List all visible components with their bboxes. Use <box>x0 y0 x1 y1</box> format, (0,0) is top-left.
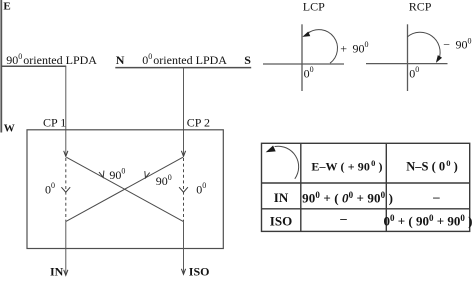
90deg oriented LPDA label <box>6 52 97 67</box>
wire feed from 0deg LPDA to CP2 <box>181 68 185 157</box>
svg-text:900 oriented LPDA: 900 oriented LPDA <box>6 52 97 67</box>
90deg label right <box>156 173 172 188</box>
LCP rotation arc +90 <box>301 30 337 64</box>
table column separator 2 <box>385 143 387 231</box>
svg-text:ISO: ISO <box>189 264 210 278</box>
table row separator 1 <box>262 182 470 184</box>
svg-text:00: 00 <box>304 65 314 80</box>
table cell IN / N-S dash <box>432 189 440 204</box>
RCP vertical axis <box>407 24 409 91</box>
table cell ISO / E-W dash <box>339 210 347 225</box>
table row label IN <box>274 190 289 205</box>
0deg label left <box>45 181 55 196</box>
RCP 0deg label <box>409 65 419 80</box>
node E label <box>3 0 10 12</box>
svg-text:E: E <box>3 0 10 12</box>
svg-text:00: 00 <box>45 181 55 196</box>
svg-text:− 900: − 900 <box>443 36 471 51</box>
svg-text:–: – <box>339 210 347 225</box>
0deg LPDA antenna line (N-S) <box>115 67 251 69</box>
90deg LPDA antenna line <box>1 65 66 67</box>
dashed through path CP2 (0deg) <box>183 158 185 221</box>
svg-text:IN: IN <box>274 190 289 205</box>
svg-text:E–W ( + 90 0 ): E–W ( + 90 0 ) <box>311 158 382 173</box>
node S label <box>244 53 251 67</box>
svg-text:900: 900 <box>156 173 172 188</box>
svg-text:00: 00 <box>196 181 206 196</box>
CP 1 label <box>43 116 66 130</box>
ISO label <box>189 264 210 278</box>
0deg oriented LPDA label <box>142 52 227 67</box>
RCP label <box>409 0 432 13</box>
svg-text:900: 900 <box>109 166 125 181</box>
svg-text:LCP: LCP <box>303 0 325 13</box>
node W label <box>4 123 15 135</box>
LCP horizontal axis <box>263 63 344 65</box>
circular polarization symbol in table header <box>264 146 298 179</box>
hybrid network box <box>27 130 223 249</box>
LCP label <box>303 0 325 13</box>
E-W axis line <box>0 0 2 133</box>
svg-text:CP 2: CP 2 <box>187 116 210 130</box>
table outer border <box>262 143 470 231</box>
table cell IN / E-W value <box>302 190 393 206</box>
svg-text:IN: IN <box>50 264 64 278</box>
svg-text:00 + ( 900 + 900 ): 00 + ( 900 + 900 ) <box>383 213 472 229</box>
RCP rotation arc -90 <box>407 32 442 64</box>
chevron arrow on CP1 dashed path <box>61 187 70 192</box>
IN label <box>50 264 64 278</box>
svg-text:N–S ( 0 0 ): N–S ( 0 0 ) <box>406 158 457 174</box>
wire feed from 90deg LPDA to CP1 <box>64 66 68 156</box>
svg-text:N: N <box>116 53 125 67</box>
svg-text:RCP: RCP <box>409 0 432 13</box>
output wire IN <box>64 221 68 275</box>
svg-text:ISO: ISO <box>270 214 292 229</box>
-90deg label <box>443 36 471 51</box>
node N label <box>116 53 125 67</box>
+90deg label <box>340 40 368 55</box>
cross coupling wire CP2 to IN (90deg) <box>66 157 183 221</box>
svg-text:00 oriented LPDA: 00 oriented LPDA <box>142 52 227 67</box>
output wire ISO <box>181 221 185 274</box>
90deg label left <box>109 166 125 181</box>
cross coupling wire CP1 to ISO (90deg) <box>66 157 183 221</box>
svg-text:900 + ( 00 + 900 ): 900 + ( 00 + 900 ) <box>302 190 393 206</box>
table row separator 2 <box>262 208 470 210</box>
svg-text:W: W <box>4 123 15 135</box>
LCP 0deg label <box>304 65 314 80</box>
dashed through path CP1 (0deg) <box>65 158 67 221</box>
svg-text:S: S <box>244 53 251 67</box>
chevron arrow on CP2 dashed path <box>179 187 188 192</box>
table header N-S column <box>406 158 457 174</box>
svg-text:CP 1: CP 1 <box>43 116 66 130</box>
svg-text:00: 00 <box>409 65 419 80</box>
svg-text:–: – <box>432 189 440 204</box>
table cell ISO / N-S value <box>383 213 472 229</box>
table header E-W column <box>311 158 382 173</box>
table row label ISO <box>270 214 292 229</box>
svg-text:+ 900: + 900 <box>340 40 368 55</box>
CP 2 label <box>187 116 210 130</box>
0deg label right <box>196 181 206 196</box>
LCP vertical axis <box>301 24 303 91</box>
table column separator 1 <box>300 143 302 231</box>
RCP horizontal axis <box>366 63 448 65</box>
